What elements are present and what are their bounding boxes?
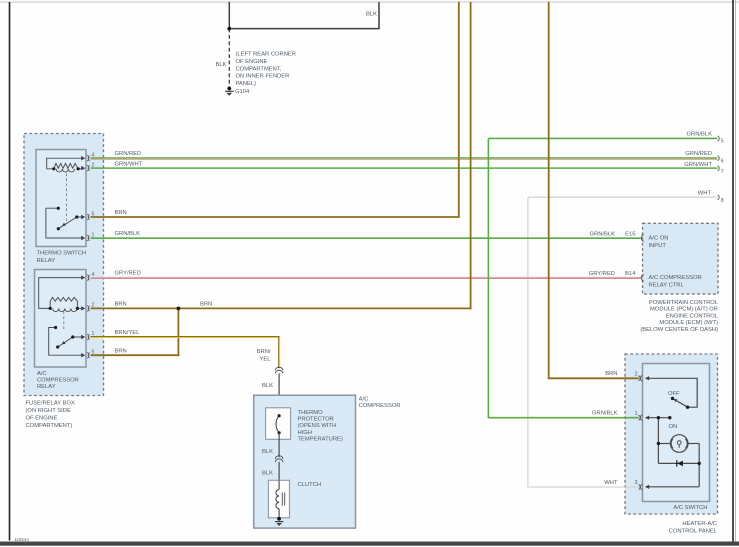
svg-text:GRN/BLK: GRN/BLK <box>592 411 618 417</box>
svg-text:(OPENS WITH: (OPENS WITH <box>298 423 337 429</box>
svg-text:GRN/WHT: GRN/WHT <box>684 162 712 168</box>
svg-text:ON: ON <box>669 424 678 430</box>
svg-text:BRN: BRN <box>605 371 617 377</box>
svg-text:GRN/BLK: GRN/BLK <box>590 231 616 237</box>
svg-text:GRN/WHT: GRN/WHT <box>115 161 143 167</box>
svg-text:CLUTCH: CLUTCH <box>298 482 322 488</box>
svg-text:6: 6 <box>721 158 724 164</box>
svg-text:TEMPERATURE): TEMPERATURE) <box>298 436 343 442</box>
svg-text:ENGINE CONTROL: ENGINE CONTROL <box>666 313 719 319</box>
svg-text:WHT: WHT <box>698 190 712 196</box>
svg-text:PROTECTOR: PROTECTOR <box>298 417 334 423</box>
svg-text:G104: G104 <box>235 89 250 95</box>
svg-text:POWERTRAIN CONTROL: POWERTRAIN CONTROL <box>649 300 719 306</box>
svg-text:OFF: OFF <box>668 391 680 397</box>
svg-text:GRN/RED: GRN/RED <box>685 151 712 157</box>
svg-text:BRN: BRN <box>115 348 127 354</box>
svg-text:GRN/BLK: GRN/BLK <box>687 132 713 138</box>
svg-text:BLK: BLK <box>262 471 273 477</box>
svg-text:BLK: BLK <box>262 449 273 455</box>
svg-text:E15: E15 <box>625 231 635 237</box>
svg-text:MODULE (ECM) (M/T): MODULE (ECM) (M/T) <box>659 320 718 326</box>
svg-text:MODULE (PCM) (A/T) OR: MODULE (PCM) (A/T) OR <box>650 307 718 313</box>
svg-text:BLK: BLK <box>366 12 377 18</box>
svg-text:COMPARTMENT): COMPARTMENT) <box>26 423 73 429</box>
svg-text:BLK: BLK <box>216 62 227 68</box>
svg-text:THERMO: THERMO <box>298 410 324 416</box>
svg-text:B14: B14 <box>625 271 636 277</box>
svg-text:A/C SWITCH: A/C SWITCH <box>673 505 707 511</box>
svg-text:BLK: BLK <box>262 383 273 389</box>
svg-text:A/C COMPRESSOR: A/C COMPRESSOR <box>649 275 702 281</box>
svg-text:PANEL): PANEL) <box>236 81 257 87</box>
svg-text:OF ENGINE: OF ENGINE <box>26 416 58 422</box>
svg-text:A/C: A/C <box>359 396 369 402</box>
svg-text:RELAY CTRL: RELAY CTRL <box>649 283 685 289</box>
svg-text:RELAY: RELAY <box>37 384 56 390</box>
svg-text:BRN/: BRN/ <box>257 349 271 355</box>
svg-text:BRN: BRN <box>115 302 127 308</box>
svg-text:CONTROL PANEL: CONTROL PANEL <box>669 529 718 535</box>
svg-text:(ON RIGHT SIDE: (ON RIGHT SIDE <box>26 408 71 414</box>
svg-text:BRN: BRN <box>115 210 127 216</box>
svg-text:HEATER-A/C: HEATER-A/C <box>682 521 717 527</box>
svg-text:COMPARTMENT,: COMPARTMENT, <box>236 66 282 72</box>
svg-text:A/C: A/C <box>37 371 47 377</box>
svg-text:INPUT: INPUT <box>649 243 667 249</box>
svg-text:2: 2 <box>635 371 638 377</box>
svg-text:OF ENGINE: OF ENGINE <box>236 59 268 65</box>
svg-text:FUSE/RELAY BOX: FUSE/RELAY BOX <box>26 401 76 407</box>
svg-text:RELAY: RELAY <box>37 258 56 264</box>
svg-text:1: 1 <box>635 411 638 417</box>
svg-text:GRY/RED: GRY/RED <box>589 271 615 277</box>
svg-text:8: 8 <box>721 198 724 204</box>
svg-text:(BELOW CENTER OF DASH): (BELOW CENTER OF DASH) <box>640 327 718 333</box>
svg-text:ON INNER FENDER: ON INNER FENDER <box>236 74 290 80</box>
svg-text:115544: 115544 <box>14 537 29 542</box>
svg-text:COMPRESSOR: COMPRESSOR <box>359 403 401 409</box>
svg-text:HIGH: HIGH <box>298 430 313 436</box>
svg-text:7: 7 <box>721 169 724 175</box>
svg-text:(LEFT REAR CORNER: (LEFT REAR CORNER <box>236 52 296 58</box>
svg-text:GRN/RED: GRN/RED <box>115 151 142 157</box>
svg-text:A/C ON: A/C ON <box>649 236 669 242</box>
svg-text:5: 5 <box>721 139 724 145</box>
svg-text:GRN/BLK: GRN/BLK <box>115 231 141 237</box>
svg-text:GRY/RED: GRY/RED <box>115 271 141 277</box>
svg-text:BRN/YEL: BRN/YEL <box>115 330 141 336</box>
svg-text:3: 3 <box>635 480 638 486</box>
svg-text:BRN: BRN <box>200 302 212 308</box>
svg-text:YEL: YEL <box>260 357 272 363</box>
svg-text:COMPRESSOR: COMPRESSOR <box>37 378 79 384</box>
svg-text:WHT: WHT <box>604 480 618 486</box>
svg-text:THERMO SWITCH: THERMO SWITCH <box>37 251 87 257</box>
